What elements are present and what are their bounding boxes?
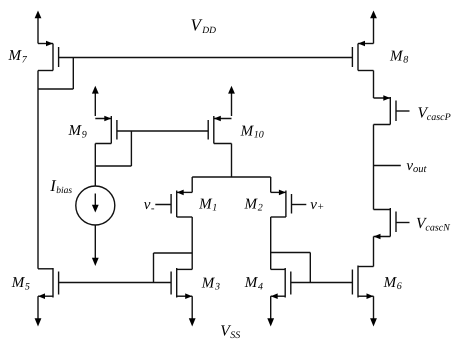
svg-text:1: 1 — [212, 203, 217, 214]
svg-text:+: + — [317, 201, 324, 213]
wire: M2 drain down to M4 drain — [270, 217, 272, 269]
wire: Ibias to VSS arrow — [92, 225, 99, 266]
VDD supply arrow at M10 source — [228, 86, 235, 116]
label VDD — [191, 15, 217, 36]
wire: M10 drain to differential pair tail — [192, 144, 271, 193]
transistor M10 (PMOS) — [208, 116, 231, 144]
label v- (inverting input) — [144, 197, 155, 215]
transistor cascode P (gate VcascP) — [374, 95, 410, 124]
wire: gate line M4 to M6 — [291, 282, 353, 284]
label vout — [406, 158, 427, 175]
VDD supply arrow at M8 source — [370, 11, 377, 44]
wire: M7 gate-drain diode link — [38, 58, 73, 90]
transistor M3 (NMOS, diode-connected) — [171, 268, 192, 299]
svg-text:M: M — [240, 123, 255, 139]
wire: M1 drain down to M3 drain — [191, 217, 193, 269]
svg-text:v: v — [144, 197, 151, 213]
VDD supply arrow at M9 source — [92, 86, 99, 116]
transistor M5 (NMOS mirror) — [38, 268, 59, 299]
svg-text:9: 9 — [82, 129, 87, 140]
wire: M9 gate-drain diode link — [95, 131, 131, 166]
label v+ (non-inverting input) — [310, 197, 324, 213]
svg-text:M: M — [11, 275, 26, 291]
transistor M6 (NMOS mirror) — [352, 266, 373, 300]
svg-text:M: M — [383, 275, 398, 291]
label M6 — [383, 275, 402, 292]
svg-text:DD: DD — [201, 26, 216, 36]
svg-text:M: M — [244, 275, 259, 291]
svg-text:SS: SS — [230, 330, 240, 341]
transistor M9 (PMOS, diode-connected) — [95, 116, 117, 144]
svg-text:4: 4 — [258, 281, 263, 292]
label M2 — [244, 197, 263, 214]
transistor M2 (PMOS input) — [271, 190, 307, 217]
svg-text:M: M — [389, 49, 404, 65]
svg-text:-: - — [151, 202, 155, 214]
label M7 — [8, 48, 28, 65]
svg-text:10: 10 — [254, 130, 264, 141]
VSS arrow at M5 source — [35, 296, 42, 326]
svg-text:M: M — [244, 197, 259, 213]
VSS arrow at M3 source — [189, 296, 196, 326]
wire: cascode N source down to M6 drain — [373, 237, 375, 267]
wire: M3 gate-drain diode link — [154, 253, 193, 283]
VSS arrow at M4 source — [267, 296, 274, 326]
svg-text:M: M — [68, 123, 83, 139]
label VcascP — [418, 104, 451, 123]
transistor M1 (PMOS input) — [155, 190, 192, 217]
label M9 — [68, 123, 87, 140]
transistor M4 (NMOS, diode-connected) — [271, 268, 291, 299]
wire: cascode P drain down through vout node — [373, 125, 375, 210]
label Ibias — [49, 176, 72, 196]
wire: M9 drain to Ibias source — [94, 144, 96, 187]
wire: M8 drain to cascode P source — [373, 71, 375, 99]
transistor cascode N (gate VcascN) — [374, 208, 410, 239]
svg-text:6: 6 — [397, 281, 402, 292]
label M10 — [240, 123, 264, 140]
svg-text:8: 8 — [403, 55, 408, 66]
node vout tick — [374, 165, 401, 167]
svg-text:3: 3 — [214, 282, 220, 293]
svg-text:2: 2 — [258, 203, 263, 214]
wire: M4 gate-drain diode link — [271, 253, 311, 283]
transistor M8 (PMOS) — [352, 41, 373, 71]
VSS arrow at M6 source — [370, 296, 377, 326]
svg-text:M: M — [201, 275, 216, 291]
wire: gate line M7 to M8 — [59, 57, 353, 59]
VDD supply arrow at M7 source — [35, 11, 42, 44]
label M4 — [244, 275, 263, 292]
wire: gate line M9 to M10 — [117, 130, 208, 132]
current source Ibias — [76, 186, 115, 225]
svg-text:M: M — [198, 197, 213, 213]
label M8 — [389, 49, 408, 66]
wire: gate line M5 to M3 — [59, 282, 172, 284]
label M3 — [201, 275, 220, 292]
label M5 — [11, 275, 30, 292]
wire: left rail M7 drain to M5 drain — [37, 71, 39, 269]
svg-text:7: 7 — [22, 54, 28, 65]
label VcascN — [416, 215, 451, 234]
label VSS — [220, 322, 240, 341]
svg-text:5: 5 — [25, 281, 30, 292]
label M1 — [198, 197, 217, 214]
svg-text:cascN: cascN — [425, 223, 451, 234]
svg-text:M: M — [8, 48, 23, 64]
svg-text:out: out — [413, 164, 428, 175]
transistor M7 (PMOS, diode-connected) — [38, 41, 59, 71]
svg-text:cascP: cascP — [427, 112, 451, 123]
svg-text:bias: bias — [56, 186, 72, 196]
